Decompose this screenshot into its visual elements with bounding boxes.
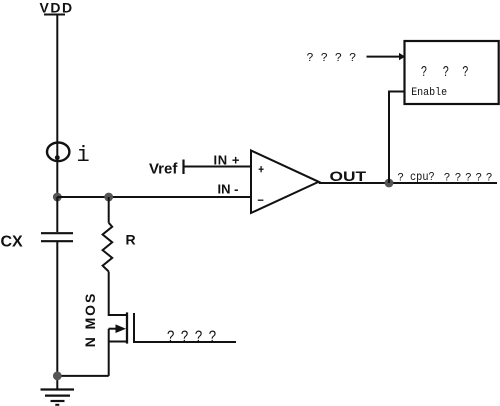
wire source down [108,329,110,376]
op-amp plus sign [259,168,264,170]
svg-text:?: ? [421,64,427,81]
svg-text:i: i [77,143,90,168]
wire Vref to IN+ [184,166,252,168]
wire OUT [319,182,497,184]
svg-text:Enable: Enable [411,87,447,99]
svg-text:VDD: VDD [40,0,74,16]
svg-text:?: ? [181,329,189,348]
resistor R [103,223,113,272]
wire resistor to MOSFET drain [109,272,127,316]
svg-text:OUT: OUT [330,168,367,184]
current source I1 [47,143,69,162]
svg-text:cpu?: cpu? [410,170,435,184]
svg-text:CX: CX [1,234,24,251]
ground [41,388,75,390]
transistor Q1 channel [126,312,128,343]
op-amp minus sign [258,199,264,201]
wire node A to capacitor [56,197,58,232]
svg-text:????: ???? [307,51,357,65]
svg-text:?: ? [397,173,404,185]
transistor Q1 source stub [109,341,127,343]
svg-text:?: ? [209,329,217,348]
svg-text:?: ? [443,64,449,81]
svg-text:N MOS: N MOS [82,292,98,347]
svg-text:IN +: IN + [214,152,241,167]
svg-text:?: ? [462,64,468,81]
wire capacitor to ground node [56,241,58,390]
svg-text:R: R [126,232,136,248]
wire input arrow to block [367,56,400,58]
svg-text:Vref: Vref [149,161,178,178]
svg-text:IN -: IN - [218,181,239,196]
transistor Q1 gate bar [134,313,236,342]
VDD rail T-bar [44,14,65,16]
wire VDD rail down to node A [56,15,58,198]
svg-text:?: ? [195,329,203,348]
block U2 [405,41,499,104]
op-amp U1 [251,151,319,214]
transistor Q1 bulk arrow [109,328,117,330]
wire node A to IN- [57,196,251,198]
node C junction dot [53,372,62,381]
svg-text:?: ? [167,329,175,348]
capacitor CX plates [41,232,73,234]
wire node B down to resistor [108,197,110,223]
wire source to ground rail [57,375,108,377]
node B junction dot [104,193,113,202]
Vref terminal bar [182,160,184,175]
node D junction dot [385,179,394,188]
node A junction dot [53,193,62,202]
wire node D to enable pin [389,92,405,184]
